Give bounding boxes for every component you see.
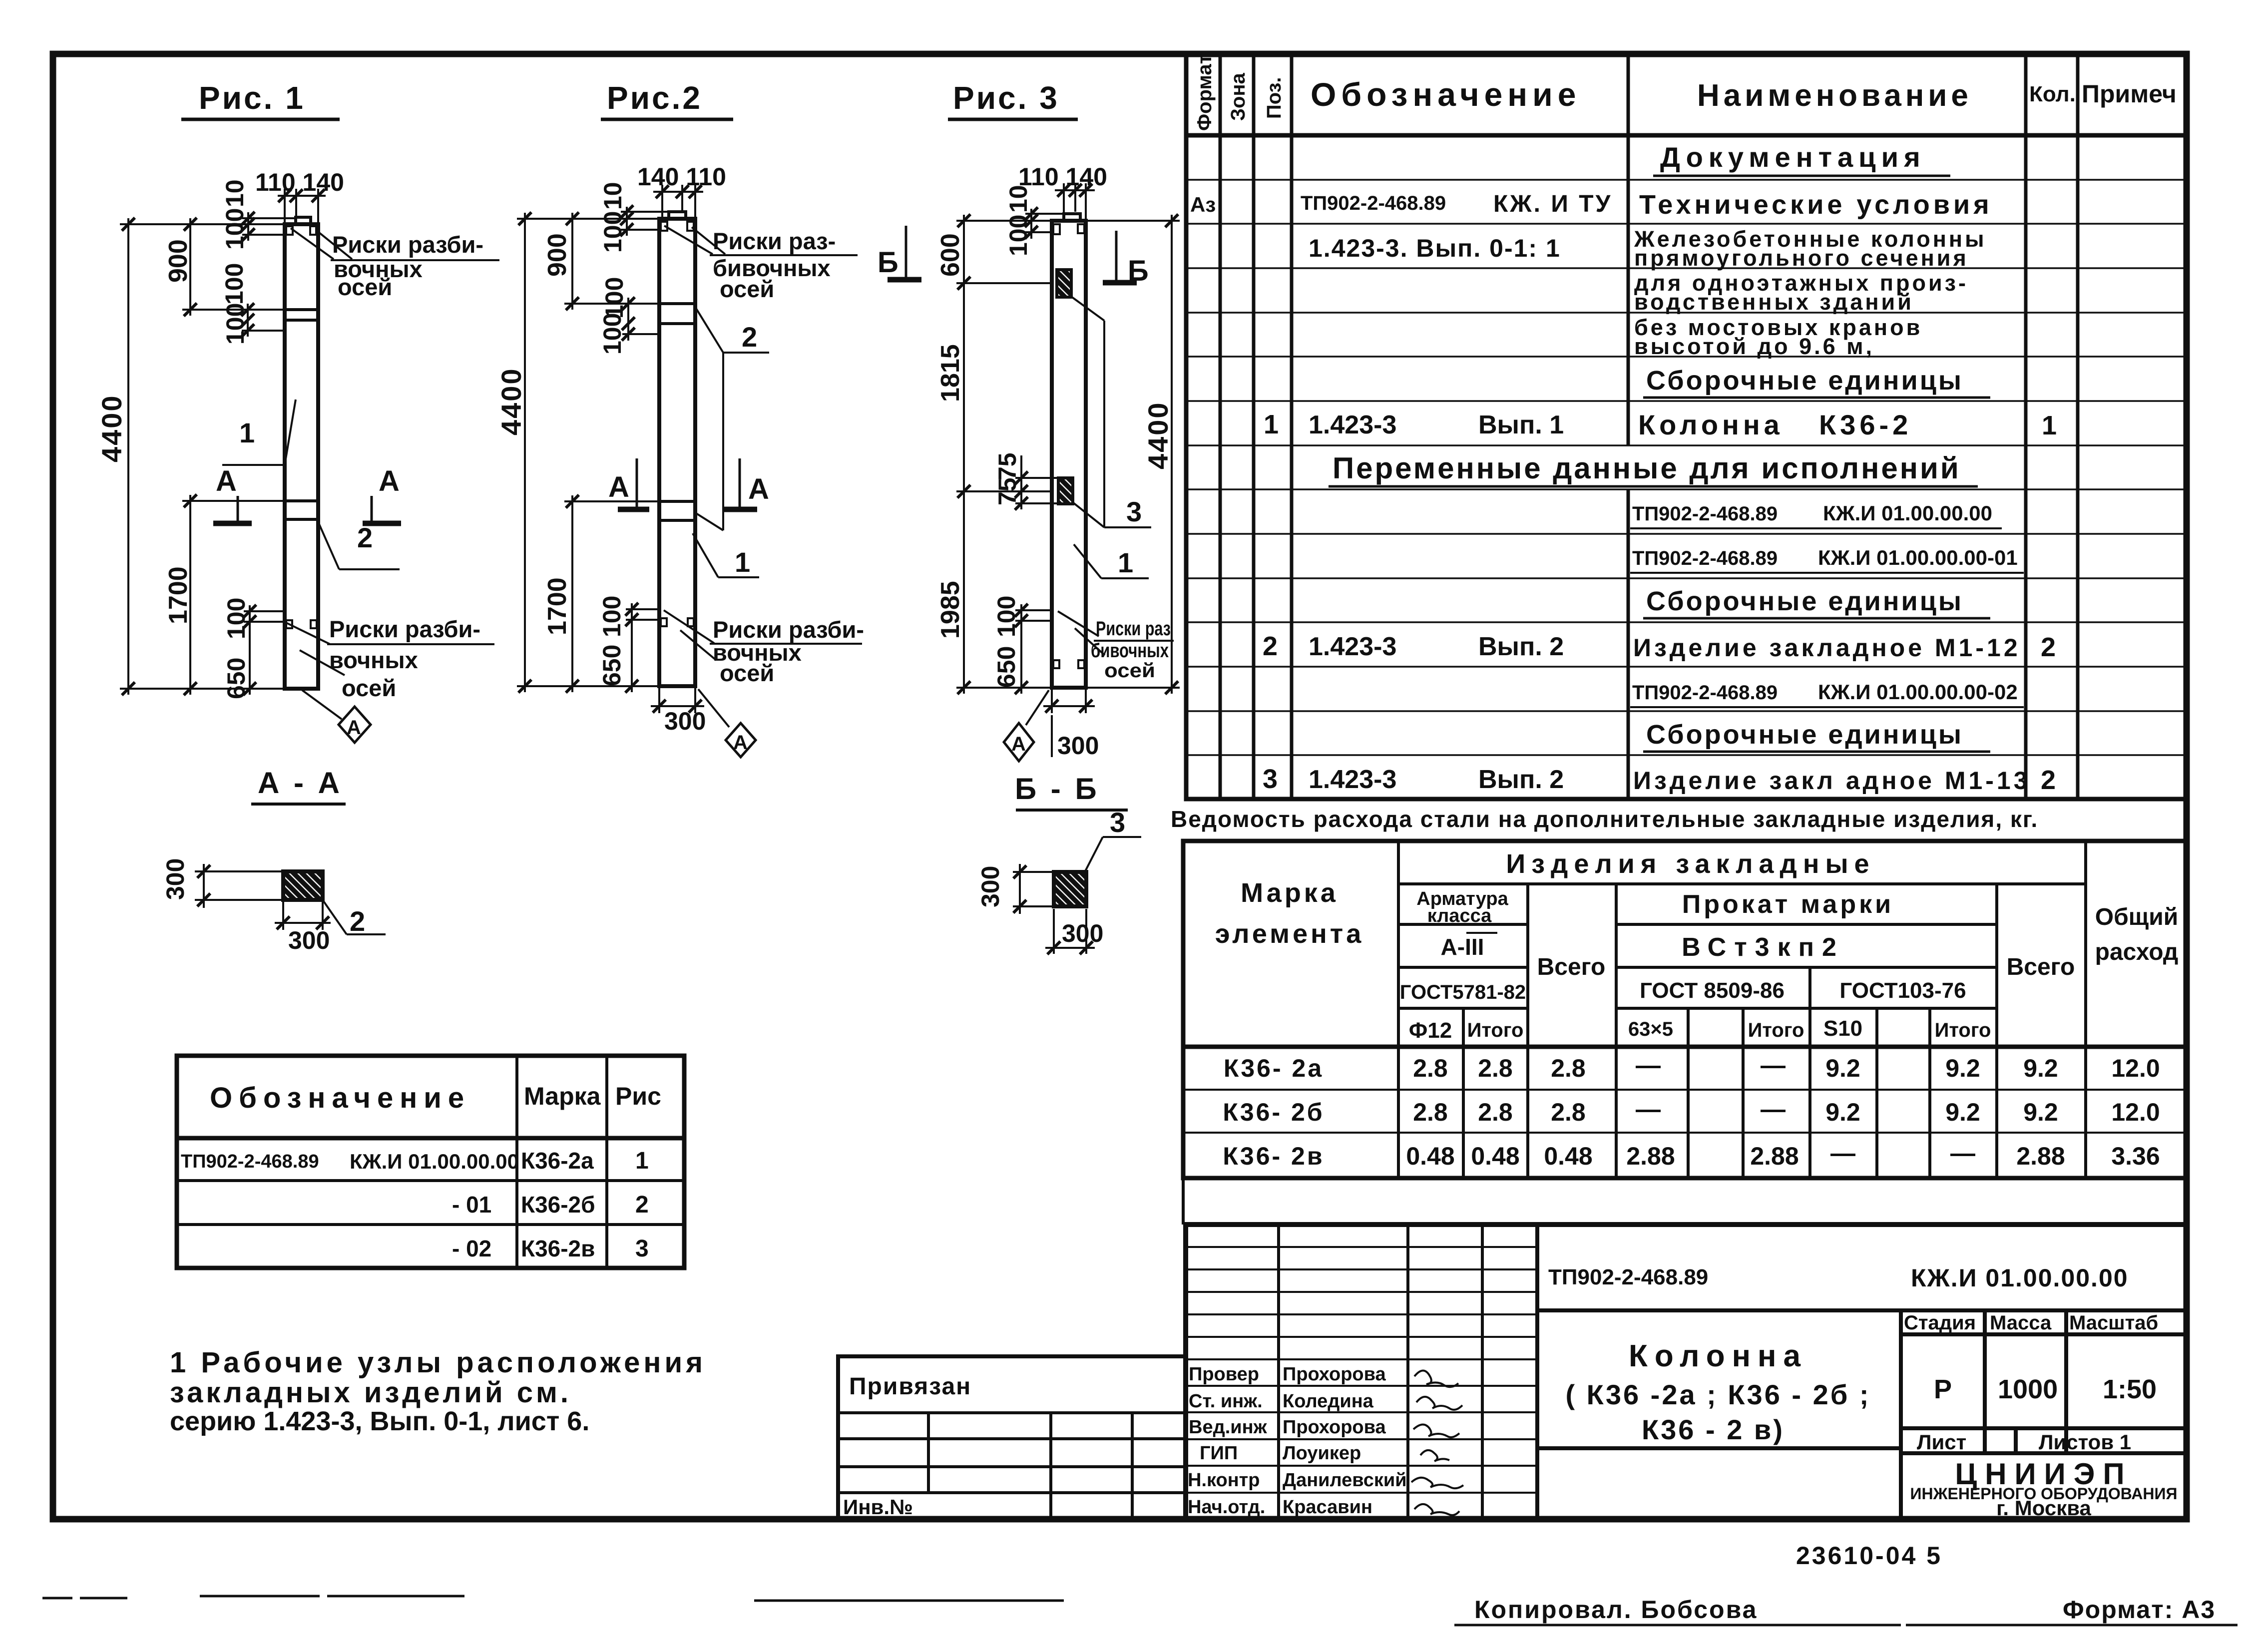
steel table header texts (1215, 849, 2179, 1043)
joint lines lower fig1 (285, 501, 318, 519)
svg-text:Всего: Всего (1537, 954, 1606, 980)
svg-text:А: А (748, 473, 769, 505)
svg-text:Риски разби-: Риски разби- (332, 231, 483, 258)
svg-text:2.8: 2.8 (1478, 1054, 1513, 1082)
row Колонна К36-2 (1264, 409, 2057, 440)
svg-text:100: 100 (600, 277, 628, 319)
svg-text:бивочных: бивочных (1091, 640, 1169, 662)
dim 300 bottom A-A (275, 902, 331, 930)
svg-text:—: — (1761, 1095, 1786, 1123)
svg-text:2.88: 2.88 (1626, 1142, 1675, 1170)
steel table grid (1183, 841, 2187, 1178)
row Изделие закладное М1-12 (1263, 631, 2056, 662)
svg-text:ТП902-2-468.89: ТП902-2-468.89 (1632, 503, 1778, 525)
flag diamond A fig3 (1004, 690, 1049, 761)
svg-text:0.48: 0.48 (1471, 1142, 1519, 1170)
svg-text:Сборочные единицы: Сборочные единицы (1646, 720, 1963, 750)
column body fig2 (659, 212, 695, 686)
svg-text:2.8: 2.8 (1413, 1098, 1448, 1126)
steel consumption table (1183, 841, 2187, 1178)
svg-text:100: 100 (1004, 215, 1032, 256)
svg-text:75: 75 (993, 452, 1021, 480)
stamp doc numbers (1548, 1264, 2129, 1292)
svg-text:Стадия: Стадия (1904, 1312, 1976, 1334)
bottom-left marks table (Обозначение/Марка/Рис) (177, 1056, 684, 1268)
svg-text:Привязан: Привязан (849, 1373, 971, 1400)
svg-text:Марка: Марка (1241, 878, 1339, 908)
svg-text:Лоуикер: Лоуикер (1283, 1443, 1361, 1464)
svg-text:А: А (379, 465, 400, 497)
label 1 fig3 (1074, 544, 1149, 578)
stamp left grid verticals (1279, 1225, 1482, 1519)
svg-text:Коледина: Коледина (1283, 1391, 1374, 1412)
svg-text:100: 100 (221, 303, 249, 345)
note text (170, 1346, 706, 1436)
svg-text:Итого: Итого (1935, 1019, 1991, 1041)
flag diamond A fig1 (302, 690, 371, 743)
svg-text:К36- 2а: К36- 2а (1224, 1054, 1324, 1082)
svg-text:Данилевский: Данилевский (1283, 1470, 1407, 1491)
svg-text:КЖ.И 01.00.00.00-01: КЖ.И 01.00.00.00-01 (1818, 546, 2018, 569)
svg-text:КЖ.И 01.00.00.00-02: КЖ.И 01.00.00.00-02 (1818, 680, 2018, 704)
svg-text:КЖ.И 01.00.00.00: КЖ.И 01.00.00.00 (350, 1150, 519, 1173)
dim 300 left B-B (1013, 864, 1054, 914)
svg-text:1: 1 (635, 1148, 649, 1174)
svg-text:осей: осей (720, 660, 774, 686)
svg-text:Лист: Лист (1917, 1430, 1966, 1454)
svg-text:0.48: 0.48 (1544, 1142, 1592, 1170)
svg-text:—: — (1636, 1095, 1661, 1123)
section mark A left fig1 (213, 465, 252, 523)
svg-text:1.423-3: 1.423-3 (1309, 765, 1396, 794)
stamp central and right dividers (1537, 1310, 2187, 1519)
svg-text:2.8: 2.8 (1478, 1098, 1513, 1126)
svg-text:К36 - 2 в): К36 - 2 в) (1642, 1414, 1785, 1445)
svg-text:300: 300 (288, 926, 330, 954)
dim 900 fig1 (182, 218, 285, 316)
svg-text:—: — (1950, 1139, 1975, 1167)
leader text riski lower fig1 (286, 616, 494, 701)
svg-text:прямоугольного сечения: прямоугольного сечения (1634, 245, 1969, 271)
svg-text:Формат: Формат (1194, 54, 1216, 131)
svg-text:100: 100 (220, 263, 248, 305)
cut marks dashed lines bottom left (42, 1596, 1064, 1601)
svg-text:2.88: 2.88 (2016, 1142, 2065, 1170)
svg-text:Вып. 1: Вып. 1 (1478, 411, 1564, 439)
svg-text:300: 300 (664, 707, 706, 735)
section mark A right fig2 (724, 458, 769, 509)
embedded item M1-13 upper fig3 (1057, 270, 1071, 297)
svg-text:4400: 4400 (495, 367, 527, 435)
svg-text:2: 2 (635, 1192, 649, 1218)
svg-text:1:50: 1:50 (2103, 1374, 2157, 1404)
svg-text:А: А (733, 732, 748, 754)
svg-text:- 01: - 01 (452, 1192, 491, 1218)
hatched plate section A-A (283, 871, 323, 900)
svg-text:ТП902-2-468.89: ТП902-2-468.89 (1301, 192, 1446, 214)
flag diamond A fig2 (698, 689, 756, 757)
svg-text:2: 2 (350, 905, 365, 937)
section mark A left fig2 (608, 458, 649, 509)
svg-text:9.2: 9.2 (2023, 1054, 2058, 1082)
svg-text:Копировал. Бобсова: Копировал. Бобсова (1474, 1596, 1758, 1624)
steel consumption table title (1171, 806, 2038, 832)
dim 100/100 at upper joint fig2 (622, 298, 659, 341)
leader text riski upper fig1 (291, 228, 499, 300)
row ТП902 КЖ.И 01.00.00.00-02 (1630, 680, 2024, 707)
stamp outer box (1186, 1225, 2187, 1519)
label 3 fig3 with double leader to embeds (1071, 297, 1151, 527)
svg-text:300: 300 (1062, 919, 1103, 947)
spec header labels (1194, 54, 2177, 131)
marks table grid (177, 1056, 684, 1268)
row Переменные данные (1329, 451, 1978, 486)
svg-text:г. Москва: г. Москва (1996, 1496, 2091, 1520)
leader text riski upper fig2 (664, 226, 858, 302)
svg-text:осей: осей (1104, 660, 1155, 682)
title block (stamp) (838, 1225, 2187, 1520)
svg-text:ТП902-2-468.89: ТП902-2-468.89 (181, 1151, 319, 1172)
svg-text:100: 100 (599, 211, 627, 253)
svg-text:ГИП: ГИП (1200, 1443, 1238, 1464)
svg-text:Рис.2: Рис.2 (607, 80, 702, 116)
label 1 fig1 (222, 400, 296, 465)
svg-text:Б - Б: Б - Б (1015, 772, 1100, 806)
svg-text:Вып. 2: Вып. 2 (1478, 765, 1564, 794)
svg-text:ТП902-2-468.89: ТП902-2-468.89 (1632, 682, 1778, 704)
svg-text:Масса: Масса (1990, 1312, 2052, 1334)
svg-text:Сборочные единицы: Сборочные единицы (1646, 366, 1963, 396)
svg-text:Итого: Итого (1467, 1019, 1524, 1041)
dim 300 bottom fig3 (1043, 690, 1095, 713)
svg-text:ТП902-2-468.89: ТП902-2-468.89 (1548, 1265, 1708, 1289)
svg-text:3: 3 (1126, 496, 1142, 527)
section mark A right fig1 (363, 465, 401, 523)
svg-text:100: 100 (221, 208, 249, 250)
svg-text:600: 600 (936, 233, 965, 277)
svg-text:1000: 1000 (1998, 1374, 2058, 1404)
svg-text:класса: класса (1427, 905, 1492, 926)
svg-text:100: 100 (222, 598, 250, 639)
svg-text:1: 1 (1118, 547, 1133, 578)
row для одноэтажных (1634, 270, 1968, 315)
dim 4400 right fig3 (1086, 215, 1180, 694)
svg-text:Р: Р (1934, 1374, 1952, 1404)
svg-text:3: 3 (635, 1236, 649, 1262)
svg-text:осей: осей (720, 276, 774, 302)
dim 300 left A-A (195, 864, 283, 908)
svg-text:1.423-3: 1.423-3 (1309, 411, 1396, 439)
svg-text:1700: 1700 (164, 566, 193, 624)
svg-text:9.2: 9.2 (1825, 1098, 1860, 1126)
label 3 B-B (1084, 807, 1141, 874)
svg-text:А: А (347, 717, 361, 739)
dim 300 bottom B-B (1045, 909, 1095, 954)
svg-text:КЖ. И ТУ: КЖ. И ТУ (1493, 191, 1612, 217)
svg-text:Рис. 3: Рис. 3 (953, 80, 1059, 116)
svg-text:элемента: элемента (1215, 919, 1364, 949)
svg-text:Б: Б (878, 246, 898, 279)
dim 650/100 bottom fig3 (1015, 604, 1052, 694)
svg-text:4400: 4400 (96, 394, 127, 462)
section A-A view (161, 766, 386, 954)
row ТП902 КЖ.И 01.00.00.00-01 (1630, 546, 2024, 573)
marks table texts (181, 1082, 661, 1262)
svg-text:100: 100 (992, 596, 1020, 637)
title Рис. 3 (948, 80, 1078, 119)
svg-text:1 Рабочие узлы расположения: 1 Рабочие узлы расположения (170, 1346, 706, 1379)
svg-text:300: 300 (161, 858, 189, 900)
svg-text:Прохорова: Прохорова (1283, 1364, 1386, 1385)
dim ladder 100/10 top fig3 (1025, 209, 1064, 239)
svg-text:закладных изделий см.: закладных изделий см. (170, 1376, 571, 1409)
label 2 fig2 with double leader (696, 309, 769, 530)
label 2 A-A (323, 900, 386, 937)
svg-text:Технические условия: Технические условия (1639, 190, 1993, 220)
svg-text:3: 3 (1110, 807, 1125, 838)
svg-text:ГОСТ5781-82: ГОСТ5781-82 (1400, 981, 1526, 1003)
svg-text:К36- 2б: К36- 2б (1223, 1098, 1324, 1126)
svg-text:осей: осей (338, 274, 392, 300)
svg-text:Инв.№: Инв.№ (843, 1495, 913, 1519)
svg-text:Зона: Зона (1227, 72, 1249, 121)
svg-text:Документация: Документация (1660, 141, 1926, 173)
svg-text:Красавин: Красавин (1283, 1497, 1372, 1518)
svg-text:12.0: 12.0 (2111, 1054, 2160, 1082)
title Рис. 1 (181, 80, 340, 119)
svg-text:осей: осей (342, 675, 396, 701)
row без мостовых кранов (1634, 315, 1922, 359)
leader text riski lower fig3 (1058, 611, 1174, 682)
svg-text:К36- 2в: К36- 2в (1223, 1142, 1324, 1170)
svg-text:Листов 1: Листов 1 (2039, 1430, 2131, 1454)
svg-text:ВСт3кп2: ВСт3кп2 (1682, 933, 1844, 962)
dim 1700 fig1 (182, 495, 285, 695)
hatched plate section B-B (1054, 872, 1086, 906)
joint lines lower fig2 (659, 501, 695, 520)
svg-text:серию 1.423-3, Вып. 0-1, лист: серию 1.423-3, Вып. 0-1, лист 6. (170, 1406, 589, 1436)
svg-text:75: 75 (993, 477, 1021, 505)
svg-text:Рис: Рис (615, 1082, 661, 1110)
svg-text:9.2: 9.2 (1945, 1098, 1980, 1126)
svg-text:2.88: 2.88 (1750, 1142, 1798, 1170)
svg-text:900: 900 (543, 233, 572, 277)
row Изделие закладное М1-13 (1263, 764, 2056, 795)
title Рис.2 (601, 80, 733, 119)
svg-text:100: 100 (598, 313, 626, 355)
stamp stage mass scale (1904, 1312, 2158, 1454)
svg-text:Обозначение: Обозначение (210, 1082, 470, 1114)
figure Рис.1 : column K36-2a elevation (96, 80, 499, 743)
svg-text:Провер: Провер (1189, 1364, 1259, 1385)
svg-text:Ф12: Ф12 (1409, 1018, 1452, 1043)
svg-text:Колонна: Колонна (1638, 409, 1784, 440)
row 1.423-3 Вып.0-1 with multiline name (1309, 226, 1987, 271)
svg-text:9.2: 9.2 (2023, 1098, 2058, 1126)
svg-text:63×5: 63×5 (1628, 1018, 1673, 1040)
svg-text:К36-2а: К36-2а (521, 1148, 594, 1174)
svg-text:Изделие закладное М1-12: Изделие закладное М1-12 (1633, 634, 2021, 662)
svg-text:Ст. инж.: Ст. инж. (1189, 1391, 1263, 1412)
svg-text:10: 10 (221, 179, 249, 207)
svg-text:650: 650 (992, 646, 1020, 688)
stamp roles column (1188, 1364, 1268, 1518)
label 1 fig2 (693, 533, 759, 578)
svg-text:Всего: Всего (2007, 954, 2075, 980)
svg-text:К36-2: К36-2 (1819, 409, 1912, 440)
svg-text:1.423-3. Вып. 0-1: 1: 1.423-3. Вып. 0-1: 1 (1309, 234, 1561, 262)
steel table data rows (1223, 1051, 2160, 1170)
footer underlines (1454, 1624, 2238, 1627)
svg-text:10: 10 (599, 182, 627, 210)
column body fig1 (285, 217, 318, 689)
svg-text:2: 2 (2041, 632, 2056, 662)
svg-text:КЖ.И 01.00.00.00: КЖ.И 01.00.00.00 (1911, 1264, 2129, 1292)
row Сборочные единицы 3 (1643, 720, 1990, 752)
stamp signatures squiggles (1411, 1370, 1463, 1515)
spec table grid (1186, 53, 2187, 799)
svg-text:Вып. 2: Вып. 2 (1478, 632, 1564, 661)
svg-text:Формат: А3: Формат: А3 (2063, 1596, 2216, 1624)
embedded item M1-13 lower fig3 (1058, 478, 1073, 504)
svg-text:Риски разби-: Риски разби- (329, 616, 480, 642)
svg-text:Масштаб: Масштаб (2069, 1312, 2158, 1334)
dim 4400 fig2 (517, 213, 659, 692)
svg-text:А - А: А - А (258, 766, 343, 800)
svg-text:—: — (1830, 1139, 1855, 1167)
leader text riski lower fig2 (664, 610, 864, 686)
dim 1700 fig2 (564, 495, 659, 692)
dim 900 fig2 (564, 213, 659, 310)
stamp name Колонна (1565, 1339, 1870, 1445)
svg-text:А: А (1011, 733, 1026, 755)
footer annotations below frame (42, 1178, 2238, 1625)
svg-text:650: 650 (222, 658, 250, 699)
divider line between figures area and tables (1182, 1178, 1185, 1225)
dim 650/100 bottom fig2 (626, 603, 659, 692)
stamp organization (1910, 1457, 2177, 1520)
figure Рис.2 : column K36-2b elevation (495, 80, 864, 757)
svg-text:9.2: 9.2 (1945, 1054, 1980, 1082)
dim 4400 fig1 (120, 218, 285, 695)
svg-text:водственных зданий: водственных зданий (1634, 289, 1914, 315)
svg-text:Переменные данные для исполнен: Переменные данные для исполнений (1333, 451, 1961, 485)
svg-text:3.36: 3.36 (2111, 1142, 2160, 1170)
svg-text:Прохорова: Прохорова (1283, 1417, 1386, 1438)
svg-text:2.8: 2.8 (1551, 1098, 1586, 1126)
dim ladder 10/100 top fig2 (621, 207, 669, 236)
svg-text:4400: 4400 (1142, 401, 1174, 469)
svg-text:высотой до 9.6 м,: высотой до 9.6 м, (1634, 334, 1874, 359)
section mark B right fig3 (1103, 231, 1149, 287)
svg-text:2: 2 (742, 321, 757, 353)
svg-text:А: А (608, 471, 629, 503)
svg-text:Ведомость расхода стали на доп: Ведомость расхода стали на дополнительны… (1171, 806, 2038, 832)
svg-text:Примеч: Примеч (2082, 80, 2177, 108)
svg-text:К36-2б: К36-2б (521, 1192, 595, 1218)
svg-text:Риски раз-: Риски раз- (713, 228, 836, 254)
column body fig3 (1052, 214, 1086, 688)
joint lines upper fig1 (285, 310, 318, 320)
svg-text:300: 300 (1057, 732, 1099, 760)
svg-text:650: 650 (598, 645, 626, 686)
svg-text:Итого: Итого (1748, 1019, 1804, 1041)
svg-text:ГОСТ103-76: ГОСТ103-76 (1839, 978, 1966, 1003)
svg-text:( К36 -2а ; К36 - 2б ;: ( К36 -2а ; К36 - 2б ; (1565, 1379, 1870, 1410)
dim 100/100 at upper joint fig1 (242, 304, 285, 337)
svg-text:ГОСТ 8509-86: ГОСТ 8509-86 (1640, 978, 1785, 1003)
row Сборочные единицы 1 (1643, 366, 1990, 398)
svg-text:КЖ.И 01.00.00.00: КЖ.И 01.00.00.00 (1823, 501, 1992, 525)
svg-text:1815: 1815 (936, 344, 965, 402)
privyazan sub-table (838, 1356, 1186, 1519)
svg-text:Колонна: Колонна (1629, 1339, 1807, 1373)
svg-text:Нач.отд.: Нач.отд. (1188, 1497, 1265, 1518)
specification table (Обозначение / Наименование) (1186, 53, 2187, 799)
svg-text:0.48: 0.48 (1406, 1142, 1454, 1170)
svg-text:Н.контр: Н.контр (1188, 1470, 1260, 1491)
corner notch marks fig1 (286, 226, 317, 628)
svg-text:Обозначение: Обозначение (1311, 76, 1581, 113)
svg-text:Наименование: Наименование (1697, 78, 1972, 113)
figure Рис.3 : column K36-2v elevation (878, 80, 1180, 761)
svg-text:3: 3 (1263, 764, 1278, 794)
svg-text:Вед.инж: Вед.инж (1189, 1417, 1268, 1438)
svg-text:А: А (216, 465, 237, 497)
svg-text:Сборочные единицы: Сборочные единицы (1646, 586, 1963, 616)
svg-text:23610-04 5: 23610-04 5 (1796, 1542, 1942, 1570)
svg-text:—: — (1636, 1051, 1661, 1079)
svg-text:2: 2 (1263, 631, 1278, 661)
svg-text:Кол.: Кол. (2029, 82, 2076, 106)
corner notch marks fig2 (661, 222, 694, 626)
svg-text:Изделие закл адное М1-13: Изделие закл адное М1-13 (1633, 767, 2031, 795)
svg-text:- 02: - 02 (452, 1236, 491, 1261)
svg-text:2: 2 (357, 522, 373, 553)
svg-text:Общий: Общий (2095, 904, 2179, 930)
svg-text:9.2: 9.2 (1825, 1054, 1860, 1082)
svg-text:S10: S10 (1823, 1016, 1862, 1041)
svg-text:1: 1 (1264, 410, 1279, 439)
svg-text:Аз: Аз (1190, 193, 1216, 216)
svg-text:300: 300 (976, 866, 1004, 907)
dim ladder 10/100 top fig1 (242, 212, 296, 241)
dim chain 600/1815/1985 fig3 (956, 215, 1052, 694)
row Сборочные единицы 2 (1643, 586, 1990, 618)
svg-text:100: 100 (598, 596, 626, 637)
dim 300 bottom fig2 (651, 688, 704, 713)
stamp names column (1283, 1364, 1407, 1518)
svg-text:Рис. 1: Рис. 1 (199, 80, 305, 116)
dim 75/75 at lower embed fig3 (1015, 455, 1058, 509)
svg-text:2: 2 (2041, 765, 2056, 795)
svg-text:2.8: 2.8 (1413, 1054, 1448, 1082)
stamp left grid horizontals (1186, 1247, 1537, 1493)
svg-text:900: 900 (164, 239, 193, 283)
svg-text:К36-2в: К36-2в (521, 1236, 595, 1261)
svg-text:110 140: 110 140 (1018, 163, 1107, 191)
svg-text:вочных: вочных (329, 647, 418, 673)
svg-text:ТП902-2-468.89: ТП902-2-468.89 (1632, 547, 1778, 569)
svg-text:Риски раз: Риски раз (1096, 618, 1171, 640)
corner notch marks fig3 (1053, 224, 1084, 668)
label 2 fig1 (318, 522, 400, 569)
svg-text:1: 1 (2042, 411, 2057, 440)
dim 650/100 bottom fig1 (244, 605, 285, 695)
svg-text:А-III: А-III (1441, 934, 1484, 960)
svg-text:1.423-3: 1.423-3 (1309, 632, 1396, 661)
svg-text:1700: 1700 (543, 577, 572, 635)
